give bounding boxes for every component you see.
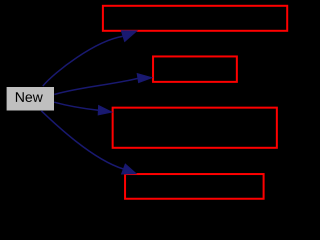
arrowhead 4 [122, 164, 137, 174]
callee box 1 (red) [103, 6, 287, 31]
arrowhead 2 [137, 74, 152, 83]
node New (grey box) [7, 87, 54, 111]
arrowhead 3 [98, 106, 112, 115]
node New label [16, 92, 43, 102]
callee box 4 (red) [125, 174, 264, 199]
callee box 2 (red) [153, 56, 237, 81]
edge New->box2 (wire) [54, 78, 138, 94]
edge New->box1 (wire) [43, 36, 123, 86]
edge New->box4 (wire) [41, 111, 123, 169]
arrowhead 1 [121, 31, 137, 42]
callee box 3 (red) [113, 108, 277, 148]
edge New->box3 (wire) [54, 102, 98, 110]
